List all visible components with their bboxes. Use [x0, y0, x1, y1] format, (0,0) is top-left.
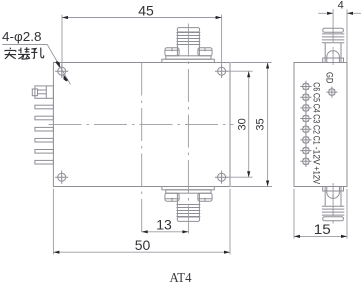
svg-text:35: 35: [254, 118, 266, 130]
svg-text:C5: C5: [312, 93, 322, 102]
svg-text:C6: C6: [312, 82, 322, 91]
svg-text:15: 15: [314, 221, 331, 237]
svg-text:4-φ2.8: 4-φ2.8: [2, 29, 42, 44]
svg-text:C1: C1: [312, 136, 322, 145]
svg-text:30: 30: [237, 118, 249, 130]
svg-text:4: 4: [338, 0, 344, 12]
svg-text:+12V: +12V: [312, 166, 322, 184]
svg-text:13: 13: [156, 216, 172, 232]
svg-text:C3: C3: [312, 114, 322, 123]
svg-text:-12V: -12V: [312, 147, 322, 165]
svg-text:C2: C2: [312, 125, 322, 134]
svg-text:AT4: AT4: [170, 271, 192, 286]
svg-text:GD: GD: [325, 72, 335, 84]
svg-text:50: 50: [135, 237, 151, 253]
svg-text:C4: C4: [312, 104, 322, 113]
svg-text:45: 45: [138, 3, 154, 19]
